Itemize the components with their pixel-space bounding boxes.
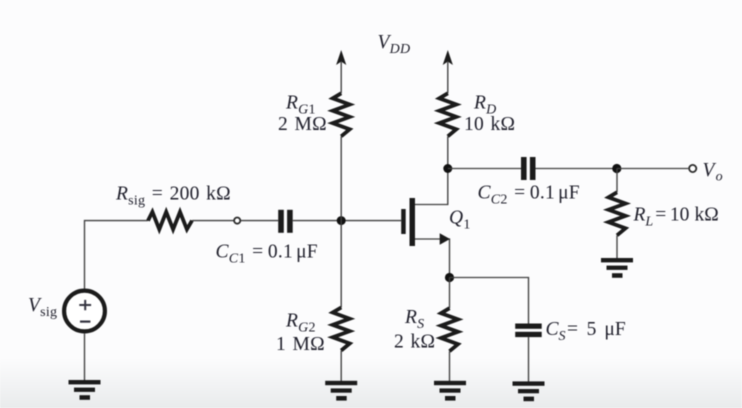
wire Vsig top to Rsig bbox=[85, 221, 149, 289]
resistor RS bbox=[441, 308, 458, 351]
svg-text:10 kΩ: 10 kΩ bbox=[464, 114, 515, 135]
voltage source Vsig bbox=[64, 291, 105, 332]
ground Vsig bbox=[69, 380, 101, 400]
node source junction bbox=[445, 273, 454, 282]
svg-text:2 kΩ: 2 kΩ bbox=[394, 331, 435, 352]
node input terminal bbox=[234, 218, 240, 224]
wire RD top to VDD arrow bbox=[447, 62, 449, 93]
capacitor CS bbox=[515, 324, 542, 338]
wire gate node up to RG1 bbox=[340, 136, 342, 220]
ground RS bbox=[434, 381, 466, 401]
svg-text:2 MΩ: 2 MΩ bbox=[278, 114, 327, 135]
wire output node to RL bbox=[616, 169, 618, 193]
node drain junction bbox=[443, 164, 452, 173]
resistor Rsig bbox=[148, 212, 192, 229]
node Vo terminal bbox=[689, 165, 696, 172]
wire RG1 to VDD arrow bbox=[340, 62, 342, 93]
wire CS to ground bbox=[528, 337, 530, 381]
wire Q1 drain lead bbox=[415, 169, 448, 205]
wire terminal to CC1 bbox=[241, 220, 278, 222]
node output junction bbox=[612, 164, 621, 173]
wire Rsig to input terminal bbox=[192, 220, 234, 222]
power arrow VDD (RD) bbox=[443, 50, 453, 65]
svg-text:1 MΩ: 1 MΩ bbox=[276, 334, 325, 355]
capacitor CC2 bbox=[521, 157, 536, 180]
resistor RG1 bbox=[333, 93, 350, 136]
ground RL bbox=[601, 258, 633, 278]
wire Vsig bottom to ground bbox=[84, 334, 86, 381]
wire source node to CS bbox=[450, 278, 529, 324]
wire RS to ground bbox=[449, 351, 451, 381]
resistor RG2 bbox=[333, 308, 350, 351]
capacitor CC1 bbox=[278, 210, 293, 233]
wire gate node down to RG2 bbox=[340, 221, 342, 308]
node gate junction bbox=[337, 216, 346, 225]
wire source node to RS bbox=[449, 278, 451, 309]
power arrow VDD (RG1) bbox=[336, 50, 346, 65]
wire Q1 source lead bbox=[415, 239, 450, 278]
wire drain node to CC2 bbox=[448, 168, 521, 170]
source arrow Q1 bbox=[440, 233, 450, 245]
transistor Q1 bbox=[401, 198, 415, 246]
wire RG2 to ground bbox=[340, 351, 342, 382]
wire RL to ground bbox=[616, 235, 618, 258]
ground CS bbox=[513, 381, 545, 401]
ground RG2 bbox=[325, 381, 357, 401]
wire output node to Vo terminal bbox=[617, 168, 688, 170]
resistor RL bbox=[609, 192, 626, 235]
wire CC2 to output node bbox=[536, 168, 617, 170]
resistor RD bbox=[439, 93, 456, 136]
wire RD to drain node bbox=[447, 136, 449, 168]
wire CC1 to gate bbox=[293, 220, 402, 222]
